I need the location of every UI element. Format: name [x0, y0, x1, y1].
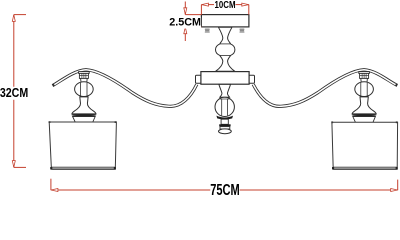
dimension 10CM line left segment with arrow — [201, 3, 214, 6]
label 10CM — [214, 0, 235, 10]
hub bar — [201, 72, 249, 85]
left lamp mount body — [79, 73, 88, 78]
dimension 10CM extension line right — [248, 5, 250, 15]
left lamp lower stem and bell — [72, 97, 96, 114]
finial small cylinder — [221, 119, 228, 124]
finial sphere — [215, 97, 234, 116]
dimension 32CM vertical line — [12, 15, 15, 168]
dimension 32CM bottom tick — [14, 166, 26, 168]
dimension 75CM line — [51, 189, 398, 192]
label 75CM — [210, 183, 239, 199]
finial bottom ball — [219, 129, 232, 134]
left lamp base rim (dark) — [72, 114, 97, 116]
left lamp glass sphere — [75, 82, 94, 97]
right shade — [331, 121, 397, 169]
finial dark collar under sphere — [216, 116, 233, 120]
screw left under canopy — [205, 28, 210, 32]
label 2.5CM — [169, 18, 201, 29]
right lamp upper neck — [361, 78, 368, 82]
dimension 75CM extension line left — [50, 179, 52, 191]
right lamp mount cap — [359, 72, 370, 74]
left lamp upper neck — [81, 78, 88, 82]
dimension 2.5CM upper arrow line — [184, 2, 187, 15]
dimension 10CM extension line left — [200, 5, 202, 15]
canopy — [201, 15, 249, 27]
right lamp mount body — [360, 73, 369, 78]
finial neck below bar — [219, 84, 231, 97]
central baluster between canopy and bar — [216, 27, 235, 71]
screw right under canopy — [240, 28, 245, 32]
hub stub right — [248, 75, 254, 83]
left lamp mount cap — [79, 72, 90, 74]
left shade — [49, 121, 117, 169]
dimension 2.5CM top connector — [185, 14, 201, 16]
dimension 10CM line right segment with arrow — [235, 3, 249, 6]
label 32CM — [0, 87, 28, 100]
right lamp base rim (dark) — [352, 114, 377, 116]
dimension 2.5CM lower arrow line — [184, 27, 187, 41]
dimension 2.5CM bottom connector — [185, 26, 201, 28]
left lamp base cup — [73, 117, 96, 123]
right lamp glass sphere — [355, 82, 374, 97]
dimension 32CM top tick — [14, 14, 26, 16]
finial white band — [220, 127, 230, 129]
right lamp base cup — [353, 117, 376, 123]
wire left arm — [53, 70, 197, 107]
finial dark band — [219, 124, 230, 126]
right lamp lower stem and bell — [352, 97, 376, 114]
hub stub left — [196, 75, 203, 83]
wire right arm — [253, 70, 397, 107]
dimension 75CM extension line right — [397, 180, 399, 191]
